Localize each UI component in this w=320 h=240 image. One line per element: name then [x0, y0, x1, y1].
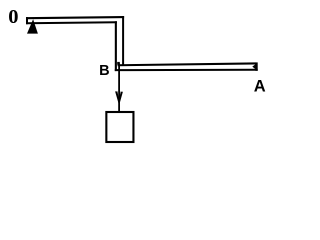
lever arm O to corner: bottom edge line [26, 21, 117, 24]
node B junction dot [117, 62, 120, 65]
pivot support triangle at O [27, 19, 38, 33]
vertical arm corner to B: right edge line [122, 16, 124, 65]
hanging load box [106, 112, 133, 142]
svg-text:A: A [254, 78, 266, 96]
force arrowhead pointing down [115, 91, 123, 105]
lever arm O to corner: top edge line [26, 16, 124, 19]
small left-pointing wedge inside end A [252, 64, 255, 69]
arm B to A: right end cap at A [255, 62, 257, 70]
svg-text:B: B [99, 63, 109, 79]
arm B to A: top edge line [118, 62, 256, 66]
vertical arm corner to B: left edge line [115, 21, 117, 71]
arm B to A: bottom edge line [115, 69, 258, 71]
lever arm O to corner: left end cap [26, 17, 28, 24]
svg-text:0: 0 [8, 6, 18, 28]
force arrow shaft from B down to box [118, 64, 120, 112]
